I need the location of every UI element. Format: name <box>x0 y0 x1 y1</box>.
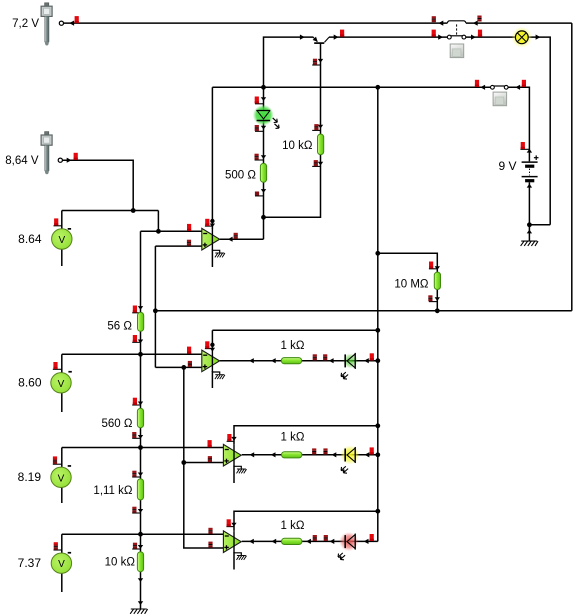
bar bright U4 supply with tick <box>226 519 234 526</box>
wire 10M feed <box>378 253 438 272</box>
wire opamp U4 negative pin <box>233 552 235 569</box>
arrow U3 supply pin <box>231 437 236 441</box>
node U2 supply pin <box>210 343 214 347</box>
wire x184 vertical to lower comparators <box>184 367 224 548</box>
svg-text:500 Ω: 500 Ω <box>225 169 256 181</box>
resistor R2 10k base <box>318 134 324 155</box>
arrow from Q1 collector <box>334 35 339 40</box>
arrow R500 bottom <box>261 189 266 193</box>
bar bright battery top with tick <box>520 142 529 149</box>
voltmeter M4 7.37 <box>51 552 71 574</box>
arrow chain below 10k <box>138 578 143 582</box>
svg-text:9 V: 9 V <box>498 159 516 173</box>
wire base node row y217 <box>264 155 321 218</box>
svg-text:8,64 V: 8,64 V <box>5 155 39 167</box>
arrow 10M bottom <box>435 297 440 301</box>
bar bright meter M1 with tick <box>54 218 62 225</box>
ground battery <box>521 241 538 246</box>
wire opamp U3 negative pin <box>233 466 235 483</box>
arrow U2 supply pin <box>210 348 215 352</box>
bar dark chain above 1k11 with tick <box>132 471 140 477</box>
arrow base resistor top <box>318 59 323 63</box>
wire opamp U1 plus input <box>155 245 202 247</box>
arrow battery below <box>527 184 532 188</box>
bar bright U3 supply with tick <box>227 434 234 441</box>
wire opamp U1 supply vertical <box>211 87 213 229</box>
resistor R9 1k row2 <box>282 452 302 458</box>
wire node A vertical x155 <box>154 246 156 367</box>
node tap 8.19 <box>138 445 143 450</box>
node rail U3 supply <box>375 423 380 428</box>
node tap 7.37 <box>138 532 143 537</box>
arrow battery top <box>527 149 532 153</box>
ground U4 <box>234 553 247 560</box>
svg-text:V: V <box>58 473 65 484</box>
pushbutton B2 <box>493 92 507 106</box>
node plus rail branch <box>181 365 186 370</box>
bar bright U3 minus in <box>208 440 212 447</box>
svg-text:7.37: 7.37 <box>18 556 42 570</box>
node tap 8.60 <box>138 352 143 357</box>
arrow U1 supply pin <box>210 224 215 228</box>
opamp U4 <box>223 531 241 553</box>
wire right vertical down <box>571 23 573 311</box>
svg-text:V: V <box>58 235 65 246</box>
opamp U3 <box>223 444 241 466</box>
wire base R10k to Q1 <box>320 43 322 134</box>
bar dark U4 minus in <box>208 528 212 534</box>
wire meter M2 top lead <box>61 354 63 372</box>
arrow chain below 1k11 <box>138 509 143 513</box>
wire meter M4 bottom lead <box>61 573 63 592</box>
arrow 10M top <box>435 266 440 270</box>
bar dark U4 out 2 <box>324 535 328 541</box>
voltmeter M1 8.64 <box>52 228 72 249</box>
wire chain 56-560 segment <box>140 331 142 409</box>
bar dark U3 out 2 <box>323 448 327 454</box>
node probe2 junction <box>131 208 136 213</box>
wire meter M1 top lead <box>61 211 63 230</box>
wire opamp U2 output to rail <box>220 360 378 362</box>
bar bright left of S3 <box>475 80 479 87</box>
resistor R4 560 ohm <box>137 408 143 427</box>
bar bright right of S2 <box>478 30 482 37</box>
svg-text:10 MΩ: 10 MΩ <box>394 278 429 290</box>
arrow chain above 56 <box>138 306 143 310</box>
ground U2 <box>212 372 225 379</box>
svg-text:8.19: 8.19 <box>18 470 42 484</box>
arrow U3 out d <box>365 452 370 457</box>
bar dark top wire left of NC <box>432 16 436 22</box>
wire opamp U1 minus input <box>141 230 202 232</box>
lamp L1 <box>511 27 532 48</box>
svg-text:10 kΩ: 10 kΩ <box>282 140 313 152</box>
node 7.2V net left <box>153 308 158 313</box>
svg-text:8.64: 8.64 <box>18 232 42 246</box>
LED D4 red row3 <box>338 532 358 560</box>
bar dark U2 plus in <box>188 361 192 367</box>
arrow D1 top <box>261 97 266 101</box>
wire collector feed transistor Q1 <box>264 37 314 87</box>
wire meter M1 bottom lead <box>61 249 63 266</box>
svg-text:V: V <box>58 379 65 390</box>
arrow U4 supply pin <box>231 523 236 527</box>
wire R500 to node <box>263 182 265 239</box>
wire D1 to R500 <box>263 121 265 164</box>
switch S1 NC top <box>447 21 466 23</box>
bar bright near probe1 <box>75 16 79 23</box>
wire probe 8.64V lead <box>63 160 134 210</box>
arrow U3 out b <box>271 452 276 457</box>
resistor R1 500 ohm <box>260 163 266 182</box>
bar dark base bottom with tick <box>312 160 320 166</box>
bar dark U2 out 1 <box>313 354 317 360</box>
node collector branch <box>261 85 266 90</box>
wire resistor chain top <box>140 231 142 312</box>
wire 7.2V horizontal net <box>155 310 571 312</box>
wire chain 1k11-10k segment <box>140 500 142 552</box>
node 10M bottom <box>435 308 440 313</box>
wire opamp U3 plus input <box>184 462 224 464</box>
bar dark chain below 1k11 with tick <box>132 507 140 513</box>
LED D3 yellow row2 <box>340 445 359 473</box>
node rail U4 supply <box>375 509 380 514</box>
arrow R500 top <box>261 155 266 159</box>
node rail 10M <box>375 251 380 256</box>
ground U3 <box>234 466 247 473</box>
arrow U3 out c <box>332 452 337 457</box>
bar bright U4 LED right <box>370 534 374 541</box>
LED D2 green row1 <box>341 353 358 379</box>
VOLTAGE BARS <box>53 16 530 551</box>
resistor R7 10M <box>434 272 440 289</box>
wire switch to lamp <box>466 36 515 38</box>
arrow base resistor mid <box>318 125 323 129</box>
wire meter M3 bottom lead <box>61 487 63 503</box>
wire chain 560-1k11 segment <box>140 428 142 480</box>
arrow before switch S2 <box>438 35 443 40</box>
wire opamp U2 negative pin <box>211 371 213 388</box>
bar bright left of S2 <box>432 30 436 37</box>
arrow top wire before NC switch <box>439 21 444 26</box>
wire opamp U2 supply vertical <box>211 330 213 351</box>
wire opamp U4 supply feed <box>234 511 378 531</box>
link S1-S2 dashed <box>456 24 458 35</box>
bar dark U3 plus in <box>208 456 212 462</box>
bar bright U2 LED right <box>370 353 374 360</box>
arrow U4 out pre <box>306 539 311 544</box>
arrow U4 out b <box>271 539 276 544</box>
bar bright meter M2 with tick <box>53 362 62 369</box>
bar dark chain above 10k with tick <box>132 543 140 549</box>
resistor R8 1k row1 <box>281 358 301 364</box>
bar dark U4 plus in <box>208 542 212 548</box>
wire opamp U2 supply feed <box>212 329 377 331</box>
bar bright chain above 560 with tick <box>132 398 140 405</box>
arrow U2 out a <box>249 358 254 363</box>
bar bright U2 supply with tick <box>205 341 213 348</box>
svg-text:1 kΩ: 1 kΩ <box>281 340 305 352</box>
wire meter M1 node row <box>62 210 159 212</box>
bar dark U3 out 1 <box>312 448 316 454</box>
resistor R3 56 ohm <box>138 312 144 331</box>
pushbutton B1 <box>450 44 464 58</box>
arrow base resistor bottom <box>318 162 323 166</box>
switch S3 circles <box>491 85 509 89</box>
bar mixed meter M3 with tick <box>53 456 62 464</box>
arrow U4 out a <box>249 539 254 544</box>
bar dark chain below 560 with tick <box>132 432 140 438</box>
wire chain 10k to ground <box>140 572 142 609</box>
node plus input U3 <box>181 460 186 465</box>
wire emitter Q1 to switch <box>329 36 447 38</box>
ground U1 <box>212 250 225 257</box>
battery BT1 9V <box>522 155 539 180</box>
arrow D1 bottom <box>261 126 266 130</box>
svg-text:10 kΩ: 10 kΩ <box>105 556 136 568</box>
node base drive <box>261 215 266 220</box>
bar bright U1 supply with tick <box>205 219 213 226</box>
arrow U4 out d <box>364 539 369 544</box>
arrow U1 output <box>228 237 233 242</box>
arrow after lamp <box>536 35 541 40</box>
voltmeter M2 8.60 <box>51 371 72 393</box>
node rail LED1 <box>375 358 380 363</box>
resistor R5 1.11k <box>137 479 143 500</box>
opamp U2 <box>202 350 220 372</box>
voltmeter M3 8.19 <box>51 465 71 487</box>
bar dark U2 out 2 <box>323 354 327 360</box>
wire divider top drop <box>157 211 159 232</box>
bar dark 10M bottom with tick <box>428 295 437 301</box>
bar bright probe2 lead <box>74 153 78 160</box>
arrow top wire after NC switch <box>473 21 478 26</box>
ground chain bottom <box>130 609 147 614</box>
CURRENT ARROWS <box>67 21 541 606</box>
arrow U2 out b <box>271 358 276 363</box>
svg-text:1 kΩ: 1 kΩ <box>281 431 305 443</box>
resistor R6 10k chain <box>137 552 143 572</box>
bar bright right of S3 <box>522 80 526 87</box>
bar bright 10M top with tick <box>429 262 437 269</box>
wire meter M3 tap row <box>62 447 224 449</box>
bar dark R500 bottom with tick <box>255 192 264 196</box>
bar bright U1 minus input <box>187 224 191 231</box>
bar mixed meter M4 with tick <box>54 542 62 550</box>
arrow U2 out c <box>329 358 334 363</box>
svg-text:560 Ω: 560 Ω <box>102 418 133 430</box>
arrow into Q1 emitter <box>300 35 305 40</box>
bar dark U1 plus input <box>187 240 191 246</box>
bar dark top wire right of NC <box>477 16 481 22</box>
wire positive rail x377 <box>377 87 379 541</box>
wire opamp U3 output to rail <box>242 454 378 456</box>
svg-text:1 kΩ: 1 kΩ <box>281 520 305 532</box>
bar bright U3 LED right <box>370 447 374 454</box>
wire meter M4 top lead <box>61 534 63 553</box>
wire supply row y87 <box>212 86 490 88</box>
wire opamp U3 supply feed <box>234 426 378 445</box>
wire lamp to return rail <box>528 37 550 225</box>
wire opamp U1 output <box>220 238 264 240</box>
arrow after switch S2 <box>471 35 476 40</box>
wire meter M2 bottom lead <box>61 393 63 412</box>
bar bright D1 top with tick <box>255 97 264 104</box>
node U1 supply pin <box>210 219 214 223</box>
transistor Q1 PNP <box>313 37 329 44</box>
probe P1 7.2V <box>41 3 63 46</box>
bar dark D1 bottom with tick <box>255 125 264 131</box>
arrow chain below 56 <box>138 340 143 344</box>
wire top 7.2V probe to NC switch <box>64 22 448 24</box>
arrow probe 8.64 lead <box>67 158 72 163</box>
svg-text:7,2 V: 7,2 V <box>12 18 39 30</box>
bar dark R500 top with tick <box>255 154 264 160</box>
arrow supply row before S3 <box>480 85 485 90</box>
bar bright chain above 56 with tick <box>132 306 140 313</box>
svg-text:56 Ω: 56 Ω <box>107 320 132 332</box>
node rail U2 supply <box>375 328 380 333</box>
svg-text:8.60: 8.60 <box>18 376 42 390</box>
wire LED D1 chain <box>263 87 265 110</box>
wire meter M2 tap row <box>62 353 202 355</box>
bar dark U1 output <box>234 233 238 239</box>
arrow U2 out d <box>364 358 369 363</box>
arrow battery ground <box>527 230 532 234</box>
arrow U3 out a <box>249 452 254 457</box>
svg-text:1,11 kΩ: 1,11 kΩ <box>93 485 132 497</box>
wire NC switch to right corner <box>466 22 572 24</box>
node battery negative <box>527 222 532 227</box>
arrow chain above 560 <box>138 402 143 406</box>
arrow chain above 1k11 <box>138 473 143 477</box>
bar dark base mid with tick <box>312 124 320 130</box>
wire opamp U4 output to rail <box>242 540 378 542</box>
wire switch3 to battery top <box>508 87 529 161</box>
wire meter M4 tap row <box>62 533 224 535</box>
wire opamp U1 negative pin <box>211 250 213 268</box>
wire meter M3 top lead <box>61 448 63 468</box>
bar bright chain below 56 with tick <box>132 335 140 342</box>
wire battery bottom to ground <box>528 182 530 240</box>
node rail LED2 <box>375 452 380 457</box>
bar bright U2 minus in <box>187 347 191 354</box>
LED D1 green lit <box>253 105 279 129</box>
wire opamp U2 plus input <box>155 366 202 368</box>
node rail top <box>375 85 380 90</box>
svg-text:V: V <box>58 559 65 570</box>
probe P2 8.64V <box>41 132 62 175</box>
node divider top <box>156 229 161 234</box>
arrow chain above 10k <box>138 545 143 549</box>
arrow supply row after S3 <box>515 85 520 90</box>
opamp U1 <box>202 228 220 250</box>
bar dark base top with tick <box>312 59 320 65</box>
switch S2 circles <box>447 35 465 39</box>
arrow top wire near probe <box>69 21 74 26</box>
arrow U4 out c <box>330 539 335 544</box>
wire 10M bottom <box>436 289 438 310</box>
arrow chain at ground <box>138 601 143 605</box>
arrow chain below 560 <box>138 435 143 439</box>
bar bright Q1 emitter <box>340 30 344 37</box>
resistor R10 1k row3 <box>282 538 302 544</box>
bar dark U4 out 1 <box>313 535 317 541</box>
wire battery negative to lamp return <box>529 224 550 226</box>
